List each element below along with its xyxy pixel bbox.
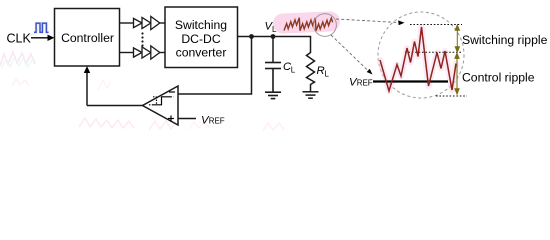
svg-text:REF: REF	[209, 116, 225, 125]
svg-text:DC-DC: DC-DC	[181, 32, 220, 46]
svg-text:L: L	[272, 25, 277, 34]
svg-text:L: L	[291, 65, 296, 74]
svg-text:converter: converter	[176, 46, 227, 60]
svg-text:CLK: CLK	[7, 31, 32, 45]
svg-text:L: L	[325, 69, 330, 78]
svg-text:Control ripple: Control ripple	[462, 71, 535, 85]
svg-text:Switching: Switching	[175, 18, 227, 32]
svg-text:R: R	[317, 65, 325, 77]
svg-text:Controller: Controller	[61, 31, 114, 45]
svg-text:Switching ripple: Switching ripple	[462, 33, 548, 47]
svg-text:REF: REF	[357, 78, 373, 87]
